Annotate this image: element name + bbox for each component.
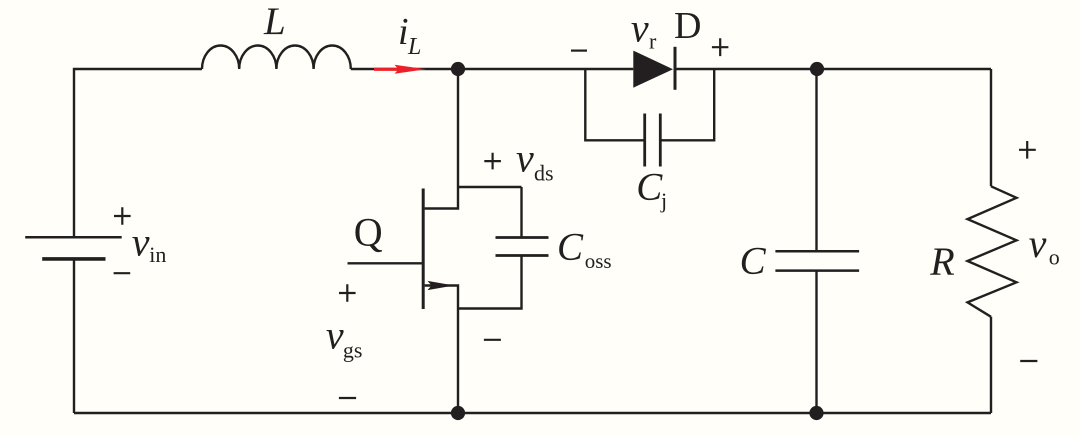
capacitor C_j right lead [660,69,714,140]
capacitor C_oss bottom plate [496,254,549,257]
svg-text:v: v [516,135,534,180]
wire right vertical to resistor [990,69,992,186]
capacitor C_oss top lead [520,187,522,238]
minus sign v_o [1020,360,1037,362]
svg-text:i: i [398,11,409,53]
minus sign battery [114,272,131,274]
svg-text:L: L [407,34,421,60]
svg-text:in: in [149,242,166,267]
diode D cathode bar [674,47,677,90]
capacitor C_oss bottom lead back to source [458,256,522,309]
MOSFET Q source lead with wire down [425,286,458,414]
plus sign v_r [712,38,729,56]
svg-text:r: r [649,29,657,54]
resistor R zigzag [968,186,1017,316]
MOSFET Q source arrow head [428,281,455,290]
wire top right (diode cathode to top-right corner) [675,68,991,70]
capacitor C bottom plate [775,269,859,272]
plus sign battery [114,207,131,224]
svg-text:o: o [1049,245,1060,270]
capacitor C top plate [775,250,859,253]
svg-text:C: C [636,166,663,209]
node top at MOSFET drain [451,62,465,76]
svg-text:v: v [326,313,344,358]
svg-text:v: v [132,220,150,265]
svg-text:Q: Q [354,210,383,255]
svg-text:C: C [557,226,584,269]
diode D triangle [633,51,673,88]
wire v_ds top branch to C_oss [458,186,522,188]
svg-text:ds: ds [534,161,554,186]
plus sign v_gs [339,284,356,301]
battery v_in top plate [25,236,122,239]
current arrow i_L shaft [374,68,400,71]
node bottom at MOSFET source [451,406,465,420]
capacitor C_j left plate [643,114,646,167]
capacitor C_j left lead [585,69,644,140]
wire left branch (top-left corner) [74,69,202,237]
svg-text:L: L [263,0,286,43]
battery v_in bottom plate [42,257,105,261]
node top at output capacitor [810,62,824,76]
svg-text:v: v [631,6,649,51]
capacitor C_j right plate [659,114,662,167]
capacitor C top lead [815,69,817,251]
wire left vertical below battery [73,259,75,413]
capacitor C bottom lead [815,271,817,413]
node bottom at output capacitor [809,406,823,420]
svg-text:R: R [929,239,954,284]
svg-text:C: C [740,240,767,283]
svg-text:j: j [660,188,667,213]
plus sign v_o [1019,141,1036,159]
minus sign v_gs [339,397,356,399]
svg-text:D: D [674,5,701,47]
minus sign v_r [571,49,587,51]
svg-text:gs: gs [343,338,363,363]
inductor L [202,45,351,69]
capacitor C_oss top plate [496,236,549,239]
wire resistor bottom lead [990,317,992,413]
svg-text:v: v [1029,221,1047,266]
svg-text:oss: oss [585,249,612,273]
minus sign v_ds [484,339,501,341]
current arrow i_L head [395,65,427,74]
wire bottom rail [74,412,991,414]
MOSFET Q channel bar [422,189,425,310]
MOSFET Q gate lead [348,262,423,264]
plus sign v_ds [484,153,501,170]
wire top middle (inductor to diode anode) [351,68,634,70]
MOSFET Q drain lead [425,69,458,209]
